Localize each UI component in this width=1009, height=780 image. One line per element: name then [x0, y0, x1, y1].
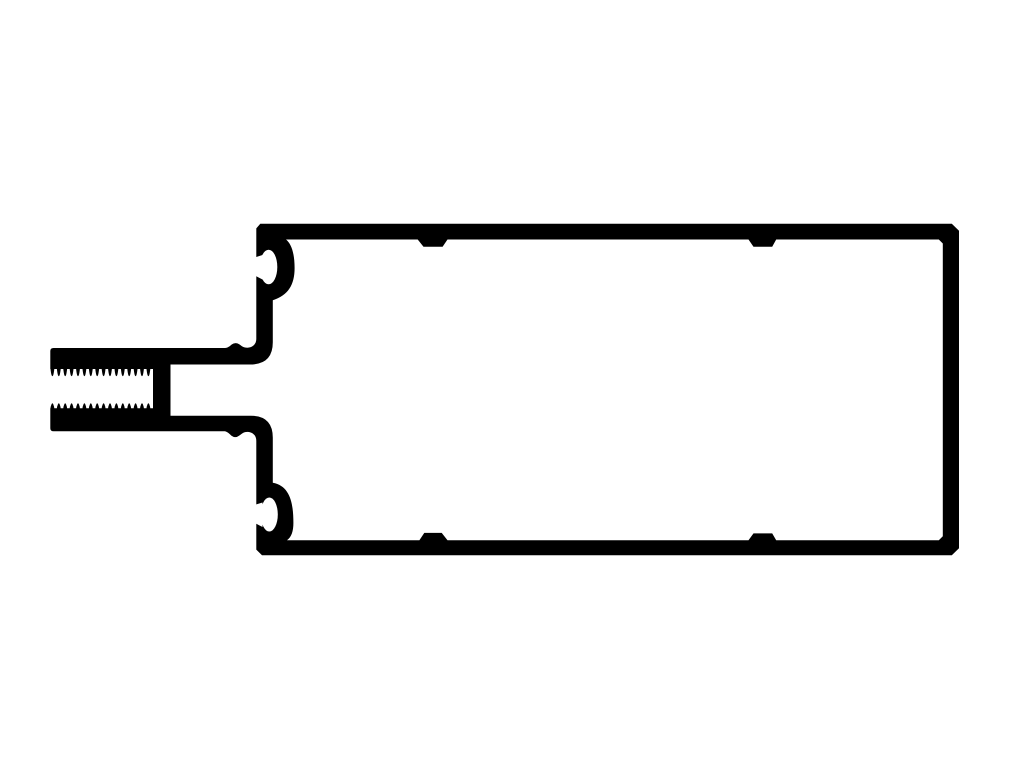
- tube interior cavity (white) with rib bumps, corner fillets and hook bulges: [171, 240, 943, 541]
- upper gasket-channel tube hole (white oval): [260, 250, 277, 285]
- lower gasket-channel tube hole (white oval): [261, 498, 278, 532]
- lower gasket-channel mouth slot (white): [254, 503, 262, 528]
- upper gasket-channel mouth slot (white): [254, 255, 262, 280]
- profile body (solid black silhouette of extrusion cross-section): [50, 224, 959, 556]
- serrated screw channel (white slot with teeth) in left arm: [50, 369, 154, 408]
